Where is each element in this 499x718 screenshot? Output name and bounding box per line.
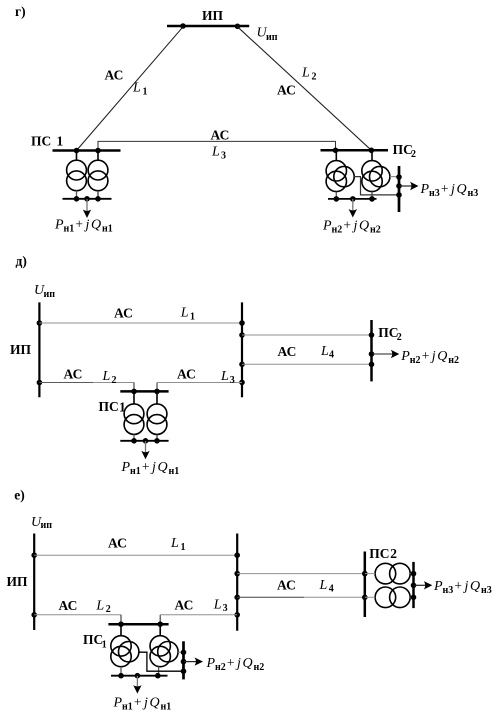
svg-text:АС: АС <box>277 83 296 98</box>
svg-text:АС: АС <box>105 68 124 83</box>
svg-text:L: L <box>213 597 222 612</box>
svg-text:2: 2 <box>397 332 402 343</box>
svg-text:3: 3 <box>223 603 228 614</box>
svg-text:ип: ип <box>44 289 56 300</box>
svg-text:н2: н2 <box>410 355 421 366</box>
svg-text:+: + <box>142 459 150 474</box>
svg-text:е): е) <box>14 488 24 503</box>
svg-text:АС: АС <box>64 366 83 381</box>
svg-text:Q: Q <box>150 696 160 711</box>
svg-text:ПС: ПС <box>99 399 119 414</box>
svg-text:L: L <box>180 306 189 321</box>
svg-text:н1: н1 <box>64 224 75 235</box>
svg-text:3: 3 <box>221 150 226 161</box>
svg-text:L: L <box>132 81 141 96</box>
svg-text:н2: н2 <box>370 224 381 235</box>
svg-text:L: L <box>170 536 179 551</box>
svg-text:АС: АС <box>59 598 78 613</box>
svg-text:+: + <box>441 181 449 196</box>
svg-text:н1: н1 <box>130 466 141 477</box>
svg-text:3: 3 <box>230 375 235 386</box>
svg-text:н3: н3 <box>481 585 492 596</box>
svg-text:АС: АС <box>211 127 230 142</box>
svg-text:н1: н1 <box>122 702 133 713</box>
svg-text:Q: Q <box>437 349 447 364</box>
svg-text:АС: АС <box>278 344 297 359</box>
svg-text:н1: н1 <box>161 702 172 713</box>
svg-text:2: 2 <box>390 546 397 561</box>
svg-text:2: 2 <box>112 375 117 386</box>
svg-text:P: P <box>113 696 123 711</box>
svg-text:Q: Q <box>243 656 253 671</box>
svg-text:L: L <box>211 144 220 159</box>
svg-text:н3: н3 <box>468 188 479 199</box>
svg-text:ИП: ИП <box>10 342 32 357</box>
svg-text:1: 1 <box>190 312 195 323</box>
svg-text:ИП: ИП <box>7 574 29 589</box>
svg-text:АС: АС <box>114 306 133 321</box>
svg-text:н2: н2 <box>254 662 265 673</box>
svg-text:P: P <box>400 349 410 364</box>
svg-text:Q: Q <box>470 579 480 594</box>
svg-text:2: 2 <box>411 149 416 160</box>
svg-text:+: + <box>134 695 142 710</box>
svg-text:Q: Q <box>91 218 101 233</box>
svg-text:ПС: ПС <box>83 632 103 647</box>
svg-text:1: 1 <box>181 542 186 553</box>
svg-text:ип: ип <box>41 520 53 531</box>
svg-text:2: 2 <box>106 604 111 615</box>
svg-text:н3: н3 <box>443 585 454 596</box>
svg-text:+: + <box>343 217 351 232</box>
svg-text:+: + <box>75 217 83 232</box>
svg-text:P: P <box>433 579 443 594</box>
svg-text:+: + <box>422 348 430 363</box>
svg-text:Q: Q <box>457 182 467 197</box>
svg-text:L: L <box>102 369 111 384</box>
svg-text:L: L <box>220 369 229 384</box>
svg-text:н1: н1 <box>169 466 180 477</box>
svg-text:Q: Q <box>158 460 168 475</box>
svg-text:н1: н1 <box>102 224 113 235</box>
svg-text:1: 1 <box>57 134 64 149</box>
svg-text:ИП: ИП <box>202 8 224 23</box>
svg-text:P: P <box>420 182 430 197</box>
svg-text:L: L <box>95 598 104 613</box>
svg-text:2: 2 <box>312 72 317 83</box>
svg-text:ПС: ПС <box>369 546 389 561</box>
svg-text:L: L <box>320 344 329 359</box>
svg-text:4: 4 <box>329 584 334 595</box>
svg-text:ПС: ПС <box>31 134 51 149</box>
svg-text:4: 4 <box>329 349 334 360</box>
svg-text:P: P <box>121 460 131 475</box>
svg-text:P: P <box>54 218 64 233</box>
svg-text:L: L <box>319 578 328 593</box>
svg-text:АС: АС <box>108 536 127 551</box>
svg-text:ип: ип <box>266 32 278 43</box>
svg-text:ПС: ПС <box>378 325 398 340</box>
svg-text:+: + <box>227 655 235 670</box>
svg-text:Q: Q <box>359 218 369 233</box>
svg-text:L: L <box>301 66 310 81</box>
svg-text:1: 1 <box>143 87 148 98</box>
svg-text:н2: н2 <box>215 662 226 673</box>
svg-text:1: 1 <box>102 640 107 651</box>
svg-text:+: + <box>454 578 462 593</box>
svg-text:д): д) <box>16 254 27 269</box>
svg-text:АС: АС <box>175 598 194 613</box>
svg-text:АС: АС <box>177 366 196 381</box>
svg-text:н2: н2 <box>332 224 343 235</box>
svg-text:г): г) <box>15 4 26 19</box>
svg-text:P: P <box>322 218 332 233</box>
svg-text:н2: н2 <box>448 355 459 366</box>
svg-text:P: P <box>206 656 216 671</box>
svg-text:ПС: ПС <box>393 142 413 157</box>
svg-text:н3: н3 <box>429 188 440 199</box>
svg-text:АС: АС <box>277 577 296 592</box>
